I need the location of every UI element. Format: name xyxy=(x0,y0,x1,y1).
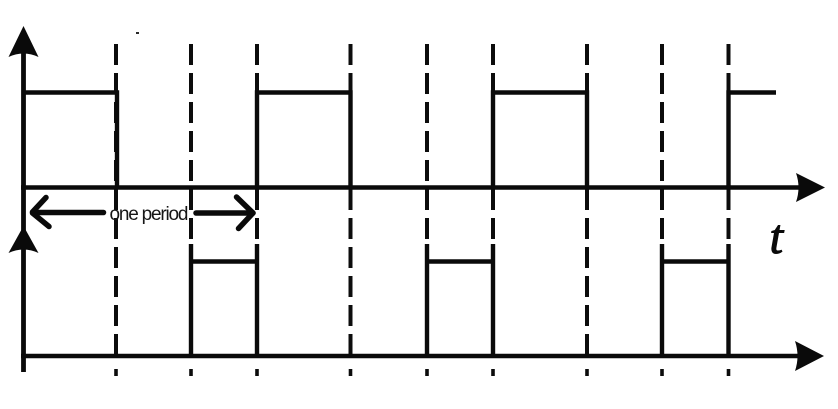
one period right arrow xyxy=(196,197,253,229)
shared y-axis shaft xyxy=(21,32,26,372)
dashed grid line t9 (x=728.5) xyxy=(727,44,731,357)
bottom waveform pulse 3 (high 662-728.5) xyxy=(662,244,729,356)
top waveform pulse 3 (high 493-587) xyxy=(493,93,587,188)
svg-text:t: t xyxy=(770,209,785,264)
top waveform pulse 1 (high 23-117) xyxy=(23,93,117,188)
tiny scan artifact dot xyxy=(136,32,139,34)
svg-text:one period: one period xyxy=(110,204,188,225)
top waveform pulse 4 (high 728.5-776, cut off) xyxy=(729,93,777,188)
bottom waveform pulse 1 (high 191-257) xyxy=(191,244,257,356)
bottom x-axis xyxy=(21,354,799,358)
below-axis tick marks of dashed lines xyxy=(116,369,729,376)
top y-axis arrowhead xyxy=(9,26,39,57)
dashed grid line t4 (x=350) xyxy=(349,44,353,357)
dashed grid line t7 (x=587) xyxy=(585,44,589,357)
dashed grid line t6 (x=493) xyxy=(491,44,495,357)
dashed grid line t2 (x=191) xyxy=(189,44,193,357)
dashed grid line t8 (x=662) xyxy=(660,44,664,357)
dashed grid line t5 (x=427) xyxy=(425,44,429,357)
bottom x-axis arrowhead xyxy=(795,341,824,371)
one period left arrow xyxy=(33,198,104,227)
dashed grid line t3 (x=257) xyxy=(255,44,259,357)
bottom y-axis arrowhead xyxy=(9,226,39,253)
top x-axis arrowhead xyxy=(796,173,825,202)
dashed grid line t1 (x=116) xyxy=(114,44,118,357)
top x-axis xyxy=(21,185,800,189)
top waveform pulse 2 (high 257-350.5) xyxy=(257,93,351,188)
bottom waveform pulse 2 (high 427-493) xyxy=(427,244,493,356)
